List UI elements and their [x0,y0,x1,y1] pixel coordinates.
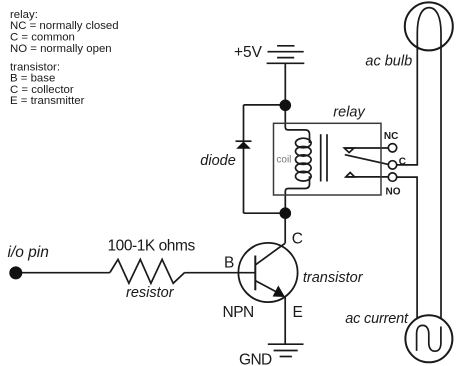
svg-text:coil: coil [276,155,291,166]
svg-text:transistor: transistor [303,270,364,286]
svg-text:E: E [293,304,303,321]
svg-text:ac bulb: ac bulb [365,54,412,70]
svg-text:NO = normally open: NO = normally open [10,43,112,55]
svg-text:NC = normally closed: NC = normally closed [10,20,119,32]
svg-text:C: C [399,156,406,167]
svg-text:NPN: NPN [223,304,254,321]
svg-text:transistor:: transistor: [10,61,60,73]
svg-text:NC: NC [384,131,398,142]
svg-text:B = base: B = base [10,73,55,85]
svg-text:ac current: ac current [345,311,409,327]
svg-text:GND: GND [239,352,272,366]
svg-text:C = collector: C = collector [10,84,74,96]
svg-text:+5V: +5V [234,44,263,61]
svg-text:i/o pin: i/o pin [8,244,49,261]
svg-text:relay:: relay: [10,9,38,21]
svg-text:NO: NO [386,186,401,197]
svg-text:relay: relay [333,104,365,120]
svg-text:C = common: C = common [10,32,75,44]
svg-text:E = transmitter: E = transmitter [10,95,85,107]
svg-text:B: B [224,255,234,272]
svg-text:resistor: resistor [126,285,175,301]
svg-text:C: C [292,230,303,247]
svg-text:100-1K ohms: 100-1K ohms [108,238,196,255]
svg-text:diode: diode [200,153,235,169]
